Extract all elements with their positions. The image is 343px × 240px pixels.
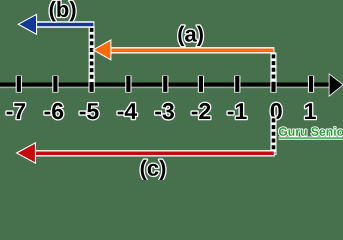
number label -7	[7, 103, 26, 119]
tick -6	[52, 76, 58, 93]
number label -1	[228, 103, 247, 119]
watermark Guru Senior	[279, 127, 343, 138]
tick -4	[125, 76, 131, 93]
tick -2	[198, 76, 204, 93]
number label -5	[80, 103, 99, 119]
arrow (b) blue from -5 leftwards	[19, 15, 94, 33]
label (c)	[141, 160, 166, 181]
number label -3	[155, 103, 174, 119]
number label -6	[45, 103, 64, 119]
tick 0	[270, 76, 276, 93]
number label -2	[192, 103, 211, 119]
number label 0	[271, 103, 282, 119]
tick -3	[162, 76, 168, 93]
dashed line at 0 lower	[271, 117, 277, 156]
dashed line at -5	[89, 26, 95, 82]
number line axis	[0, 83, 331, 87]
label (a)	[178, 26, 203, 46]
axis shadow fringe	[0, 86, 330, 88]
tick -1	[234, 76, 240, 93]
tick -7	[16, 76, 22, 93]
arrow (a) orange from 0 to -5	[94, 41, 274, 59]
label (b)	[50, 1, 76, 22]
tick 1	[308, 76, 314, 93]
dashed line at 0 upper	[271, 53, 277, 83]
number label 1	[305, 103, 316, 119]
tick -5	[88, 76, 94, 93]
arrow (c) red from 0 far left	[18, 144, 275, 163]
axis arrowhead	[330, 75, 343, 96]
number label -4	[118, 103, 137, 119]
